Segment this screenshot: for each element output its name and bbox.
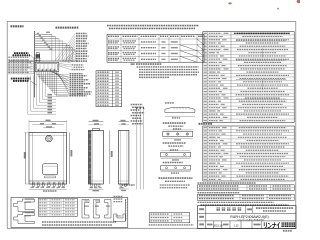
top view left dimension ticks <box>8 59 10 74</box>
middle-bottom small texts above box <box>114 195 123 197</box>
leader from left bold label <box>31 55 36 60</box>
front view bottom labels and dims <box>31 187 35 188</box>
title block row3 dividers <box>213 221 215 229</box>
top view right label stack upper texts <box>76 32 87 34</box>
details extra note lines <box>160 184 190 186</box>
top view exhaust adapter at wall <box>35 53 37 63</box>
clearance right wall hatch <box>124 199 126 222</box>
connection table diagonal slashes <box>197 39 204 45</box>
rear view body <box>118 130 128 184</box>
top view fan dimension lines <box>35 33 52 35</box>
red speck small <box>277 8 279 10</box>
detail 4 caption <box>158 177 192 179</box>
title block product name lines <box>256 207 293 209</box>
certification table <box>150 213 190 223</box>
spec table value-cell splits <box>262 48 264 51</box>
side view top dimensions <box>88 121 103 123</box>
spec table second section <box>203 126 294 181</box>
svg-text:1:12: 1:12 <box>233 223 239 227</box>
front view body <box>29 133 67 185</box>
label unit-mm <box>11 25 24 27</box>
detail 4 plate <box>161 166 191 170</box>
title block company name Rinnai <box>264 223 279 228</box>
side view front louver strip <box>89 131 92 184</box>
clearance figure upper-left <box>14 199 35 212</box>
top view wall hatch ticks below unit <box>33 62 35 63</box>
leader label right of brackets <box>57 95 77 97</box>
title block company kanji blocks <box>282 222 285 227</box>
star note 1 <box>198 182 256 184</box>
clearance figures right group <box>82 200 89 219</box>
rear view right callout texts <box>131 104 143 106</box>
certification note <box>149 224 194 226</box>
detail 3 caption <box>163 162 183 164</box>
middle top note line 1 <box>107 25 199 27</box>
rear view caption <box>122 184 135 186</box>
title block frame <box>198 206 297 229</box>
svg-text:2021.10: 2021.10 <box>213 223 223 227</box>
top view staircase leaders below unit <box>35 72 37 75</box>
page frame <box>7 22 296 229</box>
bottom-left box notes <box>42 221 116 223</box>
top view left tiny caption <box>8 56 28 58</box>
detail 1 caption <box>163 122 186 124</box>
clearance figure lower-right <box>114 214 126 221</box>
detail 3 plate <box>161 152 191 157</box>
middle top note line 2 <box>109 27 195 29</box>
top view wall vertical line <box>34 31 36 98</box>
red speck top-center <box>228 2 232 4</box>
drain note heading <box>131 63 135 65</box>
title block row1 dividers <box>245 206 247 214</box>
front view right dimension <box>69 133 71 185</box>
top view datum horizontal line <box>9 60 78 62</box>
spec table section label safety <box>199 123 213 125</box>
star note 2 <box>198 192 240 194</box>
top view unit outline <box>35 63 59 72</box>
side view body <box>88 130 103 184</box>
leader from lower bold label <box>31 81 37 85</box>
side view bottom stubs <box>91 184 93 186</box>
page number below frame <box>283 230 292 232</box>
mini table 2 <box>198 194 295 200</box>
top view slanted leaders to lower labels <box>50 72 69 78</box>
top view left bold label lower <box>11 78 31 80</box>
title block hinmei label <box>247 208 252 210</box>
detail 1 hole dims <box>165 102 174 104</box>
front view left dimension <box>25 133 27 185</box>
bottom right notes <box>198 201 274 203</box>
top view right label stack lower texts <box>76 50 88 52</box>
top view left dimension rows <box>8 59 29 61</box>
top view nested dimension brackets lower-left <box>27 76 29 115</box>
label top-view title <box>56 27 79 29</box>
top view right label stack upper leaders <box>55 34 75 61</box>
top view right label stack lower leaders <box>61 51 75 62</box>
top view unit interior hatch <box>37 68 40 70</box>
front view top dimension lines <box>29 120 67 122</box>
symbol table <box>96 71 122 107</box>
red speck top-right corner <box>297 0 301 3</box>
rear view top dimensions <box>118 121 128 123</box>
title block left column labels <box>199 208 204 210</box>
title block date <box>207 224 213 226</box>
front view bottom ports <box>33 182 35 184</box>
detail 2 caption <box>163 142 186 144</box>
bottom-left box frame <box>11 198 128 228</box>
rear view bottom stubs <box>120 184 122 186</box>
front view bottom seams <box>29 180 67 182</box>
rear view right callout lines <box>136 107 138 190</box>
side-rear gap dimension <box>109 130 111 184</box>
mini table 1 <box>198 185 295 191</box>
top view left bold label upper <box>14 52 29 54</box>
top view overall width dimension text <box>46 32 50 33</box>
detail 1 plate <box>165 108 195 113</box>
front view exhaust circle <box>46 135 53 142</box>
spec table first row bold value <box>234 32 290 34</box>
clearance figure lower-left <box>14 213 35 224</box>
title block drawing-name blocks <box>217 207 220 210</box>
front view control panel <box>43 164 58 175</box>
drain note paragraph <box>137 66 199 68</box>
spec table main <box>203 32 294 123</box>
top view right-of-unit label rows <box>59 64 71 66</box>
detail 2 plate <box>163 132 193 137</box>
clearance table <box>39 198 78 216</box>
connection table <box>107 35 204 63</box>
side view top cap <box>93 129 100 131</box>
